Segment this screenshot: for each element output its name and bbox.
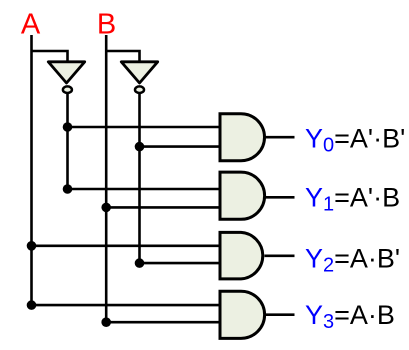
svg-text:A: A bbox=[21, 9, 41, 41]
svg-text:Y3=A·B: Y3=A·B bbox=[305, 300, 395, 333]
svg-text:Y0=A'·B': Y0=A'·B' bbox=[305, 123, 405, 156]
svg-text:Y2=A·B': Y2=A·B' bbox=[305, 243, 400, 276]
svg-text:B: B bbox=[97, 9, 116, 41]
svg-text:Y1=A'·B: Y1=A'·B bbox=[305, 182, 400, 215]
